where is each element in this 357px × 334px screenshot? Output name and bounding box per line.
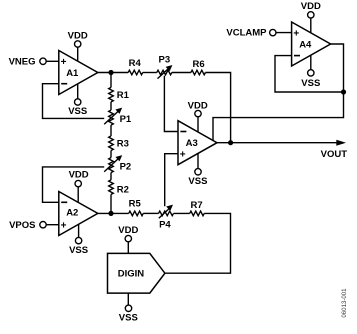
wire A1 feedback to P1 wiper: [43, 84, 105, 119]
wire VSS stub A4: [310, 55, 312, 69]
op-amp A3: [178, 121, 217, 165]
svg-text:VSS: VSS: [69, 245, 88, 256]
wire VDD stub DIGIN: [127, 242, 129, 254]
potentiometer P2: [104, 155, 131, 173]
svg-text:P1: P1: [120, 114, 132, 125]
svg-text:VDD: VDD: [301, 1, 321, 12]
wire VDD stub A3: [197, 117, 199, 132]
wire VDD stub A4: [310, 18, 312, 33]
svg-text:R4: R4: [129, 58, 142, 69]
power VSS of A2: [69, 237, 88, 256]
svg-text:R3: R3: [117, 139, 129, 150]
power VSS of DIGIN: [119, 305, 138, 324]
block DIGIN: [108, 253, 165, 293]
wire A1 output: [98, 72, 128, 74]
op-amp A4: [292, 22, 331, 66]
terminal VNEG: [9, 57, 47, 68]
wire R7 to DIGIN output: [165, 213, 231, 273]
wire VSS stub A3: [197, 154, 199, 169]
wire R4 to P3: [143, 72, 157, 74]
power VSS of A1: [68, 99, 87, 117]
svg-text:+: +: [293, 28, 299, 39]
resistor R1: [109, 87, 130, 102]
terminal VOUT arrow: [321, 140, 348, 161]
svg-text:A2: A2: [66, 207, 78, 218]
wire R2 to A2 output node: [110, 194, 112, 213]
svg-text:P4: P4: [159, 219, 171, 230]
svg-text:VDD: VDD: [68, 31, 88, 42]
svg-text:A4: A4: [299, 39, 312, 50]
svg-text:VOUT: VOUT: [321, 149, 348, 160]
svg-text:R6: R6: [193, 59, 205, 70]
wire A2 output: [98, 212, 129, 214]
potentiometer P1: [104, 108, 132, 126]
power VDD of A1: [68, 31, 88, 48]
wire VPOS to A2 + input: [46, 224, 59, 226]
wire R1 to P1: [110, 102, 112, 110]
svg-text:+: +: [180, 149, 186, 160]
wire P1 to R3: [110, 125, 112, 136]
resistor R2: [109, 180, 129, 196]
svg-text:VDD: VDD: [118, 225, 138, 236]
wire VCLAMP to A4 + input: [276, 32, 292, 34]
svg-text:VSS: VSS: [188, 176, 207, 187]
wire A4 output clamp to A3: [213, 44, 344, 141]
wire P3 to R6: [172, 72, 191, 74]
wire R5 to P4: [143, 212, 158, 214]
terminal VCLAMP: [226, 27, 276, 38]
wire VSS stub A2: [78, 224, 80, 237]
svg-text:A1: A1: [66, 68, 79, 79]
op-amp A1: [59, 51, 98, 95]
svg-text:VPOS: VPOS: [9, 220, 35, 231]
resistor R3: [109, 136, 129, 151]
svg-text:P2: P2: [120, 162, 132, 173]
wire VNEG to A1 + input: [46, 60, 59, 62]
svg-text:R7: R7: [191, 200, 203, 211]
wire P3 wiper to A3 minus input: [164, 76, 178, 132]
svg-text:+: +: [61, 57, 67, 68]
svg-text:VSS: VSS: [301, 78, 320, 89]
power VSS of A3: [188, 169, 207, 188]
wire A3 plus input to P4 wiper: [165, 154, 178, 207]
wire VDD stub A1: [77, 47, 79, 61]
power VDD of A2: [69, 170, 89, 187]
node A2 output junction: [108, 211, 113, 216]
svg-text:VCLAMP: VCLAMP: [226, 27, 267, 38]
wire VDD stub A2: [77, 187, 79, 203]
wire P2 to R2: [110, 173, 112, 180]
svg-text:VSS: VSS: [119, 313, 138, 324]
potentiometer P3: [157, 55, 173, 79]
svg-text:VDD: VDD: [69, 170, 89, 181]
wire chain segment node to R1: [110, 73, 112, 88]
resistor R7: [190, 200, 205, 216]
svg-text:R5: R5: [129, 198, 142, 209]
resistor R4: [128, 58, 143, 75]
svg-text:R2: R2: [117, 184, 129, 195]
terminal VPOS: [9, 220, 46, 231]
power VDD of DIGIN: [118, 225, 138, 242]
wire VSS stub A1: [77, 84, 79, 99]
potentiometer P4: [159, 205, 174, 231]
wire R3 to P2: [110, 151, 112, 158]
svg-text:06013-001: 06013-001: [341, 288, 348, 318]
resistor R6: [191, 59, 206, 75]
node A1 output junction: [108, 70, 113, 75]
resistor R5: [129, 198, 144, 215]
node A3 output junction: [228, 140, 233, 145]
wire A4 feedback: [275, 56, 344, 92]
wire VSS stub DIGIN: [127, 293, 129, 305]
svg-text:R1: R1: [117, 90, 130, 101]
wire P4 to R7: [174, 212, 190, 214]
op-amp A2: [59, 192, 98, 236]
node A4 feedback junction: [341, 89, 346, 94]
svg-text:+: +: [61, 221, 67, 232]
svg-text:DIGIN: DIGIN: [118, 269, 145, 280]
svg-text:P3: P3: [158, 55, 170, 66]
wire A2 feedback to P2 wiper: [43, 167, 105, 202]
wire A3 output to VOUT: [217, 142, 338, 144]
svg-text:VSS: VSS: [68, 106, 87, 117]
wire R6 feedback to A3 output: [205, 73, 230, 143]
power VSS of A4: [301, 70, 320, 89]
svg-text:VNEG: VNEG: [9, 57, 36, 68]
svg-text:A3: A3: [186, 138, 198, 149]
power VDD of A4: [301, 1, 321, 18]
power VDD of A3: [188, 101, 208, 117]
